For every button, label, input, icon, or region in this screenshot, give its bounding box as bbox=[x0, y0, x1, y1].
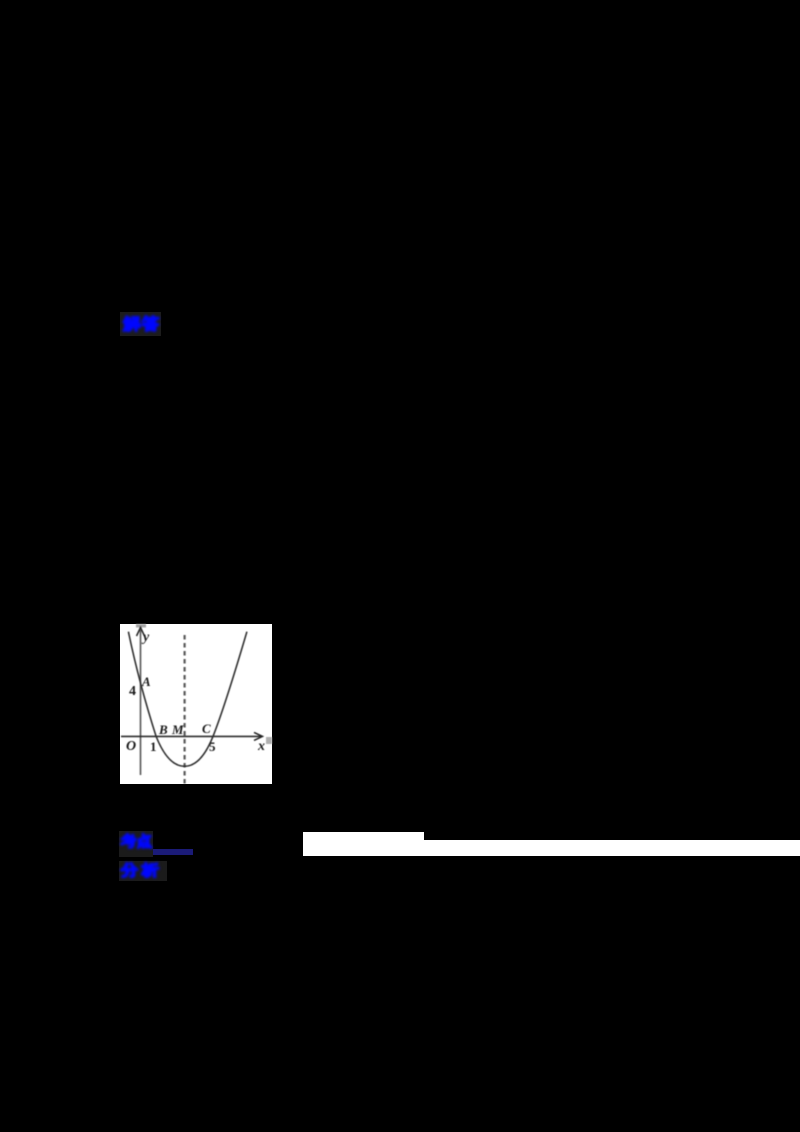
gray artifact top bbox=[136, 624, 146, 628]
svg-text:4: 4 bbox=[129, 684, 136, 699]
white highlight band tall part bbox=[303, 832, 424, 856]
svg-text:M: M bbox=[171, 722, 184, 737]
gray artifact right bbox=[266, 737, 272, 744]
dashed axis of symmetry bbox=[184, 635, 186, 784]
svg-text:O: O bbox=[126, 739, 136, 754]
svg-text:B: B bbox=[158, 722, 168, 737]
blue label "分析" bbox=[120, 862, 160, 879]
y-axis bbox=[140, 630, 142, 775]
parabola bbox=[128, 632, 247, 767]
faint artifact box behind first blue label bbox=[120, 312, 161, 336]
y-axis arrowhead bbox=[137, 628, 145, 637]
navy underline segment bbox=[153, 849, 193, 855]
faint artifact box behind 考点 bbox=[119, 831, 153, 857]
blue label "解答" bbox=[122, 315, 160, 332]
svg-text:C: C bbox=[202, 721, 211, 736]
x-axis arrowhead bbox=[254, 732, 263, 740]
svg-text:y: y bbox=[141, 630, 150, 645]
graph figure white box bbox=[120, 624, 272, 784]
faint artifact box behind 分析 bbox=[119, 861, 167, 881]
white highlight band long part bbox=[424, 840, 800, 857]
svg-text:5: 5 bbox=[209, 739, 216, 754]
svg-text:A: A bbox=[141, 674, 151, 689]
svg-text:1: 1 bbox=[150, 739, 157, 754]
blue label "考点" bbox=[120, 833, 153, 850]
svg-text:x: x bbox=[257, 739, 265, 754]
x-axis bbox=[121, 735, 261, 737]
labels bbox=[126, 630, 265, 754]
